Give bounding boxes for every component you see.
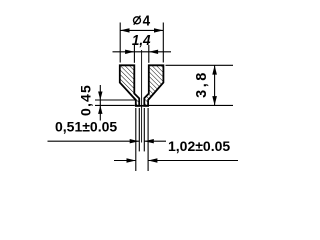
- svg-text:3,8: 3,8: [194, 70, 210, 98]
- svg-text:0,45: 0,45: [78, 84, 94, 116]
- svg-text:1,02±0.05: 1,02±0.05: [168, 138, 230, 154]
- svg-text:1,4: 1,4: [132, 32, 151, 49]
- svg-text:4: 4: [143, 13, 151, 30]
- svg-text:0,51±0.05: 0,51±0.05: [55, 119, 117, 135]
